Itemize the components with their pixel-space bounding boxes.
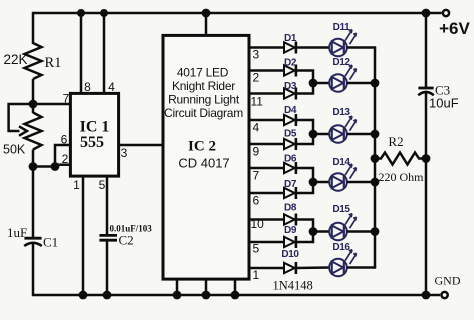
svg-text:D9: D9 bbox=[284, 225, 297, 236]
wire pin 4 reset (rail to IC1 top) bbox=[103, 13, 106, 93]
wire pin 6 bbox=[33, 145, 70, 167]
svg-text:1N4148: 1N4148 bbox=[273, 279, 313, 293]
wire pin 5 upper segment bbox=[106, 176, 109, 234]
wire IC2 ground stub 2 bbox=[205, 278, 208, 295]
wire pin 2 bbox=[55, 163, 70, 166]
svg-text:D1: D1 bbox=[284, 33, 297, 44]
node B junction dot (pot bottom / pin2-6 branch / C1) bbox=[29, 162, 38, 171]
diode D2 (1N4148) bbox=[284, 65, 296, 77]
capacitor C1 top plate bbox=[24, 237, 41, 240]
svg-text:1: 1 bbox=[253, 268, 260, 282]
svg-text:D13: D13 bbox=[332, 107, 350, 118]
junction dot pin8 line on +6V rail bbox=[77, 9, 85, 17]
svg-text:8: 8 bbox=[84, 80, 91, 94]
LED D14 bbox=[329, 164, 356, 191]
svg-text:4: 4 bbox=[253, 121, 260, 135]
wire D8/D9 cathode tie bbox=[296, 220, 313, 243]
wire D10 cathode to LED D16 bbox=[296, 266, 330, 269]
diode D8 (1N4148) bbox=[284, 214, 296, 226]
wire tie to LED D13 bbox=[313, 133, 330, 136]
junction dot bus D13 row bbox=[371, 130, 380, 139]
wire LED D14 cathode to bus bbox=[347, 181, 376, 184]
wire tie to LED D12 bbox=[313, 82, 330, 85]
resistor R2 bbox=[375, 153, 426, 165]
terminal +6V bbox=[443, 10, 449, 16]
wire D4/D5 cathode tie bbox=[296, 120, 313, 144]
svg-text:6: 6 bbox=[253, 194, 260, 208]
LED D16 bbox=[329, 250, 356, 277]
svg-text:Running Light: Running Light bbox=[168, 93, 240, 107]
LED D12 bbox=[329, 65, 356, 92]
diode D7 (1N4148) bbox=[284, 187, 296, 199]
op IC2 CD4017 box bbox=[163, 35, 249, 279]
svg-text:7: 7 bbox=[63, 92, 70, 106]
svg-text:IC 1: IC 1 bbox=[80, 119, 110, 136]
svg-text:D15: D15 bbox=[332, 204, 350, 215]
svg-text:2: 2 bbox=[62, 152, 69, 166]
wire pin 7 to node A bbox=[33, 103, 70, 106]
op IC1 555 timer box bbox=[70, 93, 118, 176]
junction dot C2 line on ground rail bbox=[103, 291, 112, 300]
junction dot pin1 on ground rail bbox=[79, 291, 88, 300]
wire bottom ground rail bbox=[33, 294, 440, 297]
junction dot right line on ground rail bbox=[422, 291, 431, 300]
terminal GND bbox=[442, 292, 448, 298]
diode D4 (1N4148) bbox=[284, 114, 296, 126]
junction dot pin2/pin6 tie bbox=[51, 162, 60, 171]
wire left vertical from +6V rail to R1 bbox=[32, 12, 35, 44]
wire pin 8 supply (rail to IC1 top) bbox=[80, 13, 83, 93]
wire IC2 pin 3 to diode D1 bbox=[248, 46, 284, 49]
label 4017 LED title block bbox=[164, 66, 243, 121]
wire D2/D3 cathode tie bbox=[296, 71, 313, 94]
svg-text:9: 9 bbox=[253, 145, 260, 159]
svg-text:IC 2: IC 2 bbox=[188, 139, 216, 155]
svg-text:5: 5 bbox=[99, 178, 106, 192]
svg-text:2: 2 bbox=[253, 71, 260, 85]
wire D1 cathode to LED D11 bbox=[296, 46, 330, 49]
wire LED cathode bus vertical bbox=[374, 48, 377, 268]
capacitor C1 curved plate bbox=[24, 243, 42, 246]
svg-text:3: 3 bbox=[121, 146, 128, 160]
diode D10 (1N4148) bbox=[284, 262, 296, 274]
wire right vertical lower (C3 to ground rail) bbox=[425, 93, 428, 295]
svg-text:Knight Rider: Knight Rider bbox=[172, 79, 235, 93]
junction dot R2 on right line bbox=[422, 154, 431, 163]
wire pin 1 ground bbox=[82, 176, 85, 295]
potentiometer VR1 50K body bbox=[25, 113, 42, 150]
wire pin 3 output to IC2 pin 14 bbox=[118, 144, 162, 147]
svg-text:D3: D3 bbox=[284, 81, 297, 92]
junction dot pin4 line on +6V rail bbox=[100, 9, 108, 17]
wire IC2 pin 9 to diode D5 bbox=[248, 143, 284, 146]
wire R1 bottom to node A bbox=[32, 79, 35, 113]
wire IC2 pin 2 to diode D2 bbox=[248, 69, 284, 72]
svg-text:R2: R2 bbox=[388, 134, 403, 149]
svg-text:C2: C2 bbox=[119, 233, 134, 248]
svg-text:D14: D14 bbox=[332, 157, 350, 168]
svg-text:D16: D16 bbox=[332, 242, 350, 253]
wire tie to LED D14 bbox=[313, 181, 330, 184]
svg-text:220 Ohm: 220 Ohm bbox=[379, 170, 425, 184]
wire C2 to ground rail bbox=[106, 241, 109, 295]
LED D13 bbox=[329, 116, 356, 143]
svg-text:5: 5 bbox=[253, 242, 260, 256]
wire LED D15 cathode to bus bbox=[347, 230, 376, 233]
junction dot right line on +6V rail bbox=[422, 9, 431, 18]
junction dot bus D15 row bbox=[371, 227, 380, 236]
svg-text:C1: C1 bbox=[43, 235, 58, 250]
svg-text:D2: D2 bbox=[284, 58, 297, 69]
svg-text:22K: 22K bbox=[4, 52, 28, 67]
svg-text:11: 11 bbox=[251, 95, 264, 109]
svg-text:D11: D11 bbox=[333, 22, 351, 33]
svg-text:7: 7 bbox=[253, 169, 260, 183]
diode D5 (1N4148) bbox=[284, 138, 296, 150]
svg-text:3: 3 bbox=[253, 48, 260, 62]
capacitor C3 top plate bbox=[418, 87, 433, 90]
svg-text:10uF: 10uF bbox=[429, 96, 459, 111]
wire IC2 pin 5 to diode D9 bbox=[248, 241, 284, 244]
node A junction dot (R1 / pot / pin7) bbox=[29, 100, 38, 109]
svg-text:6: 6 bbox=[61, 133, 68, 147]
wire tie to LED D15 bbox=[313, 230, 330, 233]
svg-text:555: 555 bbox=[80, 134, 104, 151]
junction dot D4-D5 tie bbox=[309, 130, 318, 139]
potentiometer wiper wire bbox=[9, 104, 33, 131]
svg-text:1: 1 bbox=[73, 178, 80, 192]
capacitor C2 plates bbox=[99, 234, 117, 237]
wire IC2 pin 10 to diode D8 bbox=[248, 218, 284, 221]
wire IC2 ground stub 1 bbox=[176, 278, 179, 295]
junction dot bus R2 row bbox=[371, 154, 380, 163]
svg-text:Circuit Diagram: Circuit Diagram bbox=[164, 106, 243, 120]
LED D15 bbox=[329, 214, 356, 241]
junction dot bus D14 row bbox=[371, 178, 380, 187]
wire top +6V rail bbox=[33, 12, 442, 15]
svg-text:+6V: +6V bbox=[439, 19, 470, 38]
junction dot bus D12 row bbox=[371, 79, 380, 88]
junction dot stub2 on ground rail bbox=[202, 291, 211, 300]
wire LED D13 cathode to bus bbox=[347, 133, 376, 136]
svg-text:4017 LED: 4017 LED bbox=[177, 66, 229, 80]
svg-text:4: 4 bbox=[108, 80, 115, 94]
diode D6 (1N4148) bbox=[284, 162, 296, 174]
capacitor C3 curved plate bbox=[418, 92, 434, 95]
svg-text:R1: R1 bbox=[45, 55, 62, 71]
wire IC2 pin 4 to diode D4 bbox=[248, 119, 284, 122]
svg-text:50K: 50K bbox=[3, 143, 26, 157]
svg-text:1uF: 1uF bbox=[7, 225, 27, 240]
svg-text:D6: D6 bbox=[284, 154, 297, 165]
wire right vertical upper (rail to C3) bbox=[425, 13, 428, 88]
wire IC2 pin16 supply stub bbox=[205, 13, 208, 36]
svg-text:D10: D10 bbox=[281, 249, 299, 260]
wire C1 to bottom rail bbox=[32, 244, 35, 297]
svg-text:D12: D12 bbox=[332, 57, 350, 68]
diode D9 (1N4148) bbox=[284, 236, 296, 248]
diode D1 (1N4148) bbox=[284, 42, 296, 54]
wire LED D12 cathode to bus bbox=[347, 82, 376, 85]
wire IC2 pin 7 to diode D6 bbox=[248, 167, 284, 170]
wire IC2 pin 6 to diode D7 bbox=[248, 192, 284, 195]
svg-text:GND: GND bbox=[435, 274, 461, 288]
junction dot IC2 supply on +6V rail bbox=[202, 9, 211, 18]
svg-text:D7: D7 bbox=[284, 179, 297, 190]
potentiometer wiper arrowhead bbox=[19, 126, 27, 135]
junction dot D2-D3 tie bbox=[309, 79, 318, 88]
wire IC2 ground stub 3 bbox=[234, 278, 237, 295]
LED D11 bbox=[329, 30, 356, 57]
wire IC2 pin 11 to diode D3 bbox=[248, 92, 284, 95]
diode D3 (1N4148) bbox=[284, 88, 296, 100]
svg-text:CD 4017: CD 4017 bbox=[178, 156, 229, 171]
wire pot bottom to node B bbox=[32, 150, 35, 239]
resistor R1 bbox=[25, 43, 42, 79]
svg-text:D5: D5 bbox=[284, 129, 297, 140]
wire D6/D7 cathode tie bbox=[296, 168, 313, 193]
svg-text:D4: D4 bbox=[284, 105, 297, 116]
svg-text:10: 10 bbox=[251, 217, 265, 231]
wire LED D16 cathode to bus bbox=[347, 266, 376, 269]
wire LED D11 cathode to bus bbox=[347, 46, 376, 49]
junction dot stub1 on ground rail bbox=[173, 291, 182, 300]
junction dot D8-D9 tie bbox=[309, 227, 318, 236]
svg-text:D8: D8 bbox=[284, 203, 297, 214]
junction dot D6-D7 tie bbox=[309, 178, 318, 187]
junction dot stub3 on ground rail bbox=[231, 291, 240, 300]
wire IC2 pin 1 to diode D10 bbox=[248, 267, 284, 270]
